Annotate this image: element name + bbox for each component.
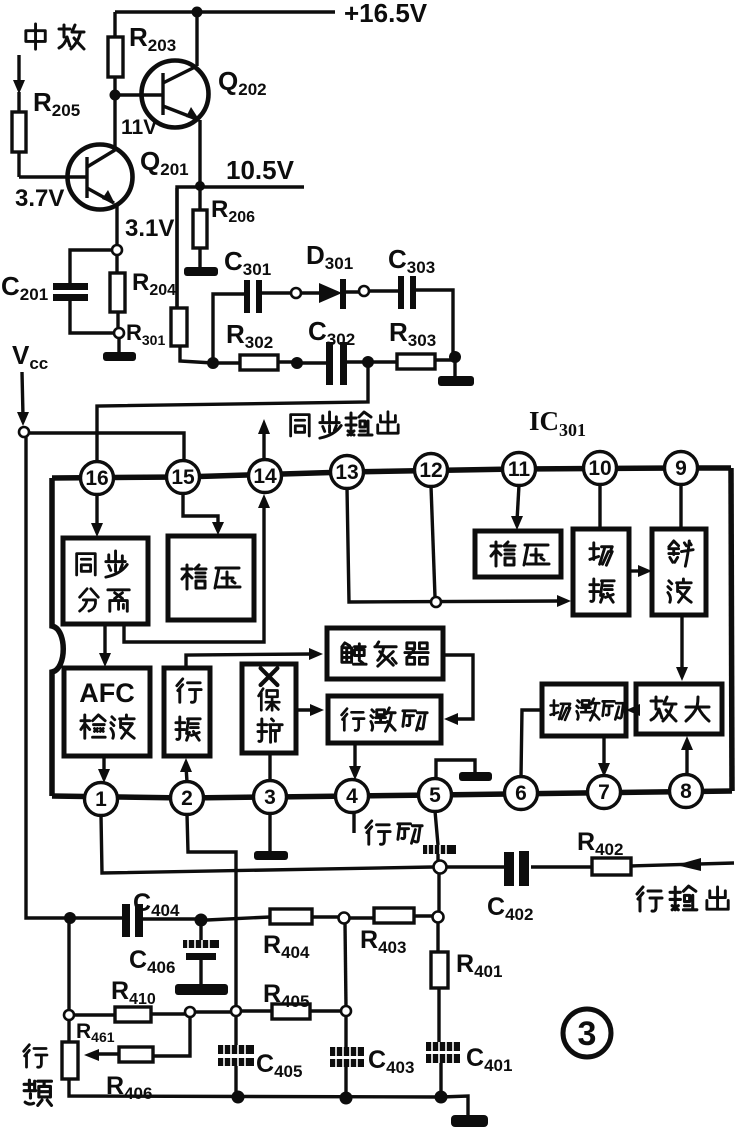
block 场振 [573,529,629,615]
IC301 left edge with notch [52,478,63,796]
svg-text:10: 10 [588,457,611,480]
svg-text:1: 1 [95,788,107,811]
resistor R303 [368,354,455,369]
pin3 ground [254,813,288,860]
wire C404 rail [66,918,196,919]
block 稳压 left [168,536,254,620]
svg-text:10.5V: 10.5V [226,155,295,185]
wire 10.5V rail [177,187,304,308]
IC301 outline top edge [52,468,731,478]
transistor Q202 [115,12,209,186]
pin 16 [81,462,114,495]
node pin12 line [431,597,441,607]
capacitor C405 [218,1016,254,1092]
pin 14 [249,460,282,493]
junction emitter Q202 [195,181,205,191]
arrow line-output in [676,858,701,871]
svg-text:3.7V: 3.7V [15,185,64,212]
block 斜波 [652,529,706,615]
pin 2 [171,782,204,815]
pin 15 [167,461,200,494]
arrow pin16 to sync-sep [91,494,103,537]
svg-text:16: 16 [85,467,108,490]
input arrow [13,55,25,94]
svg-text:AFC: AFC [79,678,135,708]
pin 11 [503,453,536,486]
arrow 行激励 to pin4 [349,743,361,780]
IC301 right edge [731,468,732,791]
wire 保护 to 行激励 [296,704,324,716]
svg-text:9: 9 [675,457,687,480]
svg-text:11: 11 [508,458,531,481]
block AFC检波 [64,668,150,756]
node emitter Q201 [112,245,122,255]
resistor R403 [349,908,433,923]
svg-text:6: 6 [515,782,527,805]
wire +16.5V rail [115,10,335,13]
resistor R405 [241,1004,341,1019]
block 保护 [242,664,296,753]
resistor R205 [12,92,67,177]
capacitor C303 [369,276,453,355]
svg-text:13: 13 [335,461,358,484]
node right of D301 [359,286,369,296]
block 同步分离 [63,538,148,624]
node Vcc [19,427,29,437]
svg-text:12: 12 [419,459,442,482]
wire to R404 [207,917,270,920]
R406 branch [97,1017,190,1056]
junction C404-C406 [195,914,208,927]
pin 10 [584,452,617,485]
ground bottom right [451,1115,488,1127]
junction C405 bottom [232,1091,245,1104]
ground right filter [438,357,474,386]
wire pin9 to 斜波 [679,484,682,529]
node R405 right [341,1006,351,1016]
svg-text:3: 3 [578,1015,597,1053]
block 触发器 [327,628,443,679]
svg-text:7: 7 [598,781,610,804]
diode D301 [301,279,359,309]
label 中放 [26,24,84,49]
wire left rail to R461 [67,923,70,1042]
node left of D301 [291,288,301,298]
resistor R410 [74,1007,185,1022]
junction bottom filter left [207,357,219,369]
node R404-R403 [339,913,350,924]
wire left rail down [26,437,66,918]
block 放大 [636,684,722,734]
transistor Q201 [68,95,133,250]
svg-text:5: 5 [429,784,441,807]
wire 斜波 to 放大 [676,615,688,681]
resistor R402 [592,858,734,875]
wire pin11 to 稳压R [511,485,523,530]
capacitor C403 [330,1016,364,1092]
wire 保护 to pin3 [268,753,271,781]
pin 6 [505,777,538,810]
wire pin2 down [187,814,236,1008]
resistor R301 [171,188,213,363]
label 行输出 [637,886,728,911]
pin 12 [415,454,448,487]
capacitor C406 [175,926,228,995]
block 稳压 right [475,531,561,577]
junction C401 bottom [435,1091,448,1104]
svg-text:3.1V: 3.1V [125,215,174,242]
node line-output junction [434,861,447,874]
arrow pin2 to 行振 [180,758,192,782]
ground under R206 [184,267,218,276]
pin 3 [254,781,287,814]
node pin2 rail meets [231,1006,241,1016]
wire pin1 down [101,815,433,873]
node R410 left [64,1010,74,1020]
junction C403 bottom [340,1092,353,1105]
pin 1 [85,783,118,816]
wire pin5 down [435,811,438,861]
pin5 top stub [436,760,492,781]
wire 触发器 to 行激励 [443,655,473,725]
resistor R461 [62,1042,78,1079]
wire 放大 to 场激励 [626,704,640,716]
pin 5 [419,779,452,812]
node R410 right [185,1007,195,1017]
svg-text:8: 8 [680,780,692,803]
resistor R203 [108,12,123,95]
pin 7 [588,776,621,809]
pin 9 [665,452,698,485]
capacitor C201 [53,250,114,333]
pin 4 [336,780,369,813]
wire 行振 to 触发器 [186,648,323,668]
svg-text:14: 14 [253,465,277,488]
capacitor C302 [302,342,363,385]
junction [192,7,203,18]
svg-text:2: 2 [181,787,193,810]
label 同步输出 [291,412,399,438]
wire filter to pin16 [97,362,368,461]
wire junction down [437,874,440,913]
wire to R405 [195,1010,236,1013]
wire pin10 to 场振 [598,484,601,529]
label 行励 [366,821,422,844]
label 行频 [24,1045,52,1106]
svg-text:4: 4 [346,785,358,808]
junction right filter [449,351,461,363]
block 行激励 [328,696,441,743]
wire pin6 to 场激励 [521,710,542,777]
svg-text:3: 3 [264,786,276,809]
resistor R204 [110,255,125,328]
resistor R401 [431,922,448,1042]
wire 场激励 to pin7 [598,736,610,777]
capacitor C301 [213,280,291,363]
Vcc arrow [17,372,29,426]
pin4 stub [352,812,355,833]
arrow into 场振 [557,595,571,607]
bottom rail to ground [441,1096,468,1118]
junction R302-C302 [291,357,303,369]
ground under R204 [103,338,136,361]
wire Vcc to pin15 [29,433,184,460]
pin 13 [331,456,364,489]
wire R461 to bottom rail [69,1079,441,1097]
pin 8 [670,775,703,808]
wire 场振 to 斜波 [629,565,652,577]
resistor R206 [193,186,207,268]
junction C302-R303 [362,356,374,368]
svg-text:+16.5V: +16.5V [344,0,428,28]
IC301 bottom edge [52,791,732,798]
sync output arrow [258,419,270,460]
arrow sync-sep to AFC [99,624,111,667]
node R403 right [433,912,444,923]
capacitor C404 [122,904,143,937]
block 行振 [164,668,210,756]
svg-text:15: 15 [171,466,195,489]
wire sync-sep to pin14 [124,494,270,642]
capacitor C402 [447,851,593,886]
block 场激励 [542,684,626,736]
junction left rail [64,912,76,924]
junction base Q202 [110,90,121,101]
svg-text:11V: 11V [121,116,157,139]
arrow into R461 [84,1049,99,1061]
resistor R406 [119,1047,153,1062]
wire pin15 to 稳压 [183,493,224,535]
wire R404 node down [345,923,346,1007]
capacitor C401 [426,1042,460,1092]
resistor R302 [213,355,297,370]
wire pin13 pin12 to 场振 [347,488,560,602]
wire pin8 to 放大 [681,736,693,775]
resistor R404 [270,909,339,924]
bead on pin5 wire [423,845,456,854]
circled 3 [563,1009,611,1057]
node below R204 [114,328,124,338]
arrow AFC to pin1 [98,756,110,783]
